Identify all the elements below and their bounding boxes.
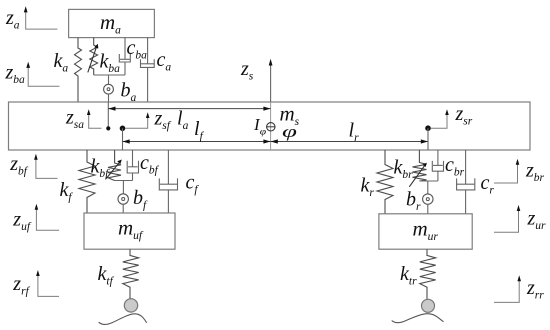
wire bracket to inerter b_r: [427, 181, 429, 194]
damper c_a: [141, 38, 172, 102]
label z_br: [494, 159, 545, 184]
front road profile: [99, 314, 147, 325]
dimension l_a: [108, 107, 270, 132]
node z_sa: [65, 102, 110, 131]
label z_a: [5, 6, 57, 31]
inerter b_a: [104, 80, 137, 105]
spring k_ba (adjustable): [88, 38, 120, 75]
damper c_bf: [127, 150, 159, 181]
label z_rr: [494, 275, 544, 302]
front wheel: [124, 299, 137, 312]
pitch centre symbol I_phi: [253, 115, 275, 137]
rear wheel: [422, 299, 435, 312]
beam centre line: [270, 102, 272, 150]
rear road profile: [392, 314, 444, 323]
tyre spring k_tr: [400, 249, 436, 299]
svg-text:φ: φ: [282, 122, 297, 141]
label z_ba: [5, 62, 60, 87]
wire bracket to inerter b_f: [122, 181, 124, 194]
label z_s with arrow: [240, 58, 273, 102]
unsprung mass m_ur box: [379, 214, 472, 249]
bracket joining k_ba and c_ba: [94, 74, 125, 76]
node z_sr: [425, 103, 473, 150]
damper c_f: [159, 150, 199, 213]
wire bracket to inerter: [108, 75, 110, 84]
label z_uf: [12, 204, 59, 233]
dimension l_r: [271, 120, 428, 145]
spring k_a: [54, 38, 82, 102]
label z_ur: [494, 205, 546, 232]
spring k_f: [60, 150, 96, 213]
node z_sf: [120, 107, 172, 150]
spring k_bf (adjustable): [91, 150, 122, 181]
bracket joining k_br and c_br: [419, 180, 438, 182]
svg-text:φ: φ: [260, 128, 267, 138]
label z_bf: [9, 153, 57, 178]
mass m_a box: [69, 9, 155, 37]
sprung mass beam: [9, 102, 531, 150]
spring k_br (adjustable): [394, 150, 427, 187]
unsprung mass m_uf box: [84, 213, 175, 249]
inerter b_r: [406, 189, 433, 214]
damper c_br: [432, 150, 464, 181]
label z_rf: [12, 270, 59, 298]
tyre spring k_tf: [98, 249, 139, 298]
bracket joining k_bf and c_bf: [115, 180, 133, 182]
dimension l_f: [123, 118, 271, 144]
spring k_r: [361, 150, 394, 214]
damper c_ba: [119, 37, 147, 75]
inerter b_f: [118, 187, 148, 213]
damper c_r: [457, 150, 495, 214]
